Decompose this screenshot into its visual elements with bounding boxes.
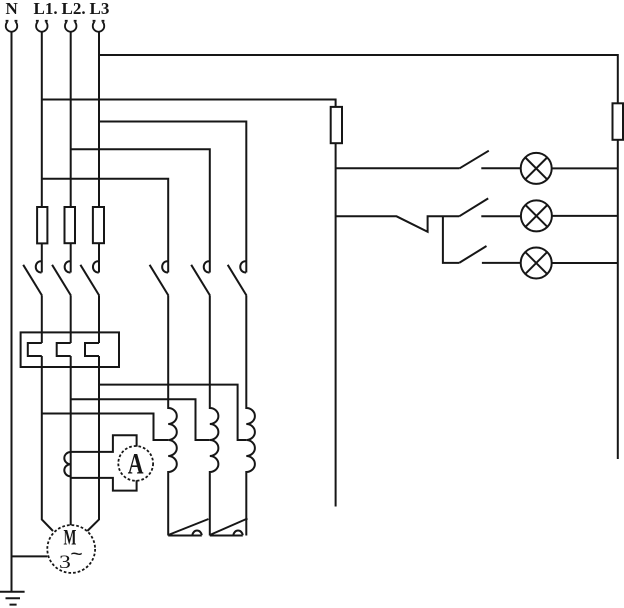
lamp HL2 [521, 200, 552, 231]
wire rail from L1 to left fuse [42, 100, 336, 107]
terminal L2 [65, 21, 77, 32]
wire L2 fuse to contact [70, 243, 72, 272]
fuse FU5 right [613, 103, 624, 140]
switch SA3 [459, 246, 486, 263]
terminal L1 [36, 21, 48, 32]
svg-text:N: N [6, 0, 19, 18]
fuse FU2 [65, 207, 76, 243]
terminal N [6, 21, 18, 32]
autotransformer coil T1 [168, 296, 177, 536]
wire L2 contact to relay [70, 296, 72, 344]
autotransformer coil T2 [210, 296, 219, 536]
wire switch SA3 to lamp HL3 [482, 262, 521, 264]
contactor contact KM2-3 [228, 261, 247, 295]
wire tee down to row 3 [443, 216, 459, 263]
wire branch L2 to contact KM2-2 [71, 149, 210, 272]
wire left control rail [335, 143, 337, 506]
heater element FR-2 [57, 343, 71, 356]
svg-text:3: 3 [59, 551, 71, 572]
motor M circle [47, 525, 95, 573]
wire switch SA2 to lamp HL2 [481, 215, 521, 217]
switch SA1 [460, 151, 489, 169]
star contact KM1-1 [168, 519, 208, 536]
breaker contact QF-3 [80, 261, 99, 295]
svg-text:L1.: L1. [34, 0, 58, 18]
switch SA2 [459, 198, 488, 216]
star contact KM1-2 [210, 519, 248, 536]
wire L1 relay to motor [42, 356, 53, 531]
wire tap L3 to autotransformer T3 [99, 385, 246, 440]
lamp HL1 [521, 153, 552, 184]
wire L3 contact to relay [98, 296, 100, 344]
wire tap L1 to autotransformer T1 [42, 414, 168, 441]
terminal L3 [93, 21, 105, 32]
wire CT to ammeter top [71, 435, 137, 452]
fuse FU3 [93, 207, 104, 243]
ammeter A [118, 446, 153, 481]
wire L2 relay to motor [70, 356, 72, 525]
heater element FR-1 [28, 343, 42, 356]
breaker contact QF-1 [23, 261, 42, 295]
contactor contact KM2-2 [191, 261, 210, 295]
wire lamp HL1 to right rail [552, 167, 618, 169]
wire top rail from L3 to right fuse [99, 55, 618, 103]
wire L3 vertical upper [98, 31, 100, 207]
fuse FU4 left [331, 107, 342, 143]
wire lamp HL3 to right rail [552, 262, 618, 264]
breaker contact QF-2 [52, 261, 71, 295]
autotransformer coil T3 [246, 296, 255, 536]
wire L3 fuse to contact [98, 243, 100, 272]
wire lamp HL2 to right rail [552, 215, 618, 217]
current transformer TA [64, 452, 70, 476]
wire lamp row 2 left with actuator notch [336, 216, 460, 232]
wire tap L2 to autotransformer T2 [71, 399, 210, 440]
wire branch L3 to contact KM2-3 [99, 122, 246, 273]
wire N to motor [12, 555, 48, 557]
wire N vertical [11, 31, 13, 592]
fuse FU1 [37, 207, 47, 243]
wire L1 fuse to contact [41, 243, 43, 272]
wire L1 contact to relay [41, 296, 43, 344]
wire L2 vertical upper [70, 31, 72, 207]
svg-text:A: A [128, 447, 144, 480]
contactor contact KM2-1 [150, 261, 169, 295]
wire right control rail [617, 140, 619, 459]
ground [0, 592, 25, 605]
wire lamp row 1 left [336, 167, 460, 169]
svg-text:L2.: L2. [62, 0, 86, 18]
wire L3 relay to motor [87, 356, 99, 531]
wire L1 vertical upper [41, 31, 43, 207]
thermal overload relay FR box [21, 332, 119, 367]
svg-text:~: ~ [70, 545, 83, 568]
wire switch SA1 to lamp HL1 [481, 167, 521, 169]
svg-text:L3: L3 [90, 0, 110, 18]
lamp HL3 [521, 248, 552, 279]
heater element FR-3 [85, 343, 99, 356]
wire ammeter bottom to CT [71, 478, 137, 491]
wire branch L1 to contact KM2-1 [42, 179, 168, 273]
